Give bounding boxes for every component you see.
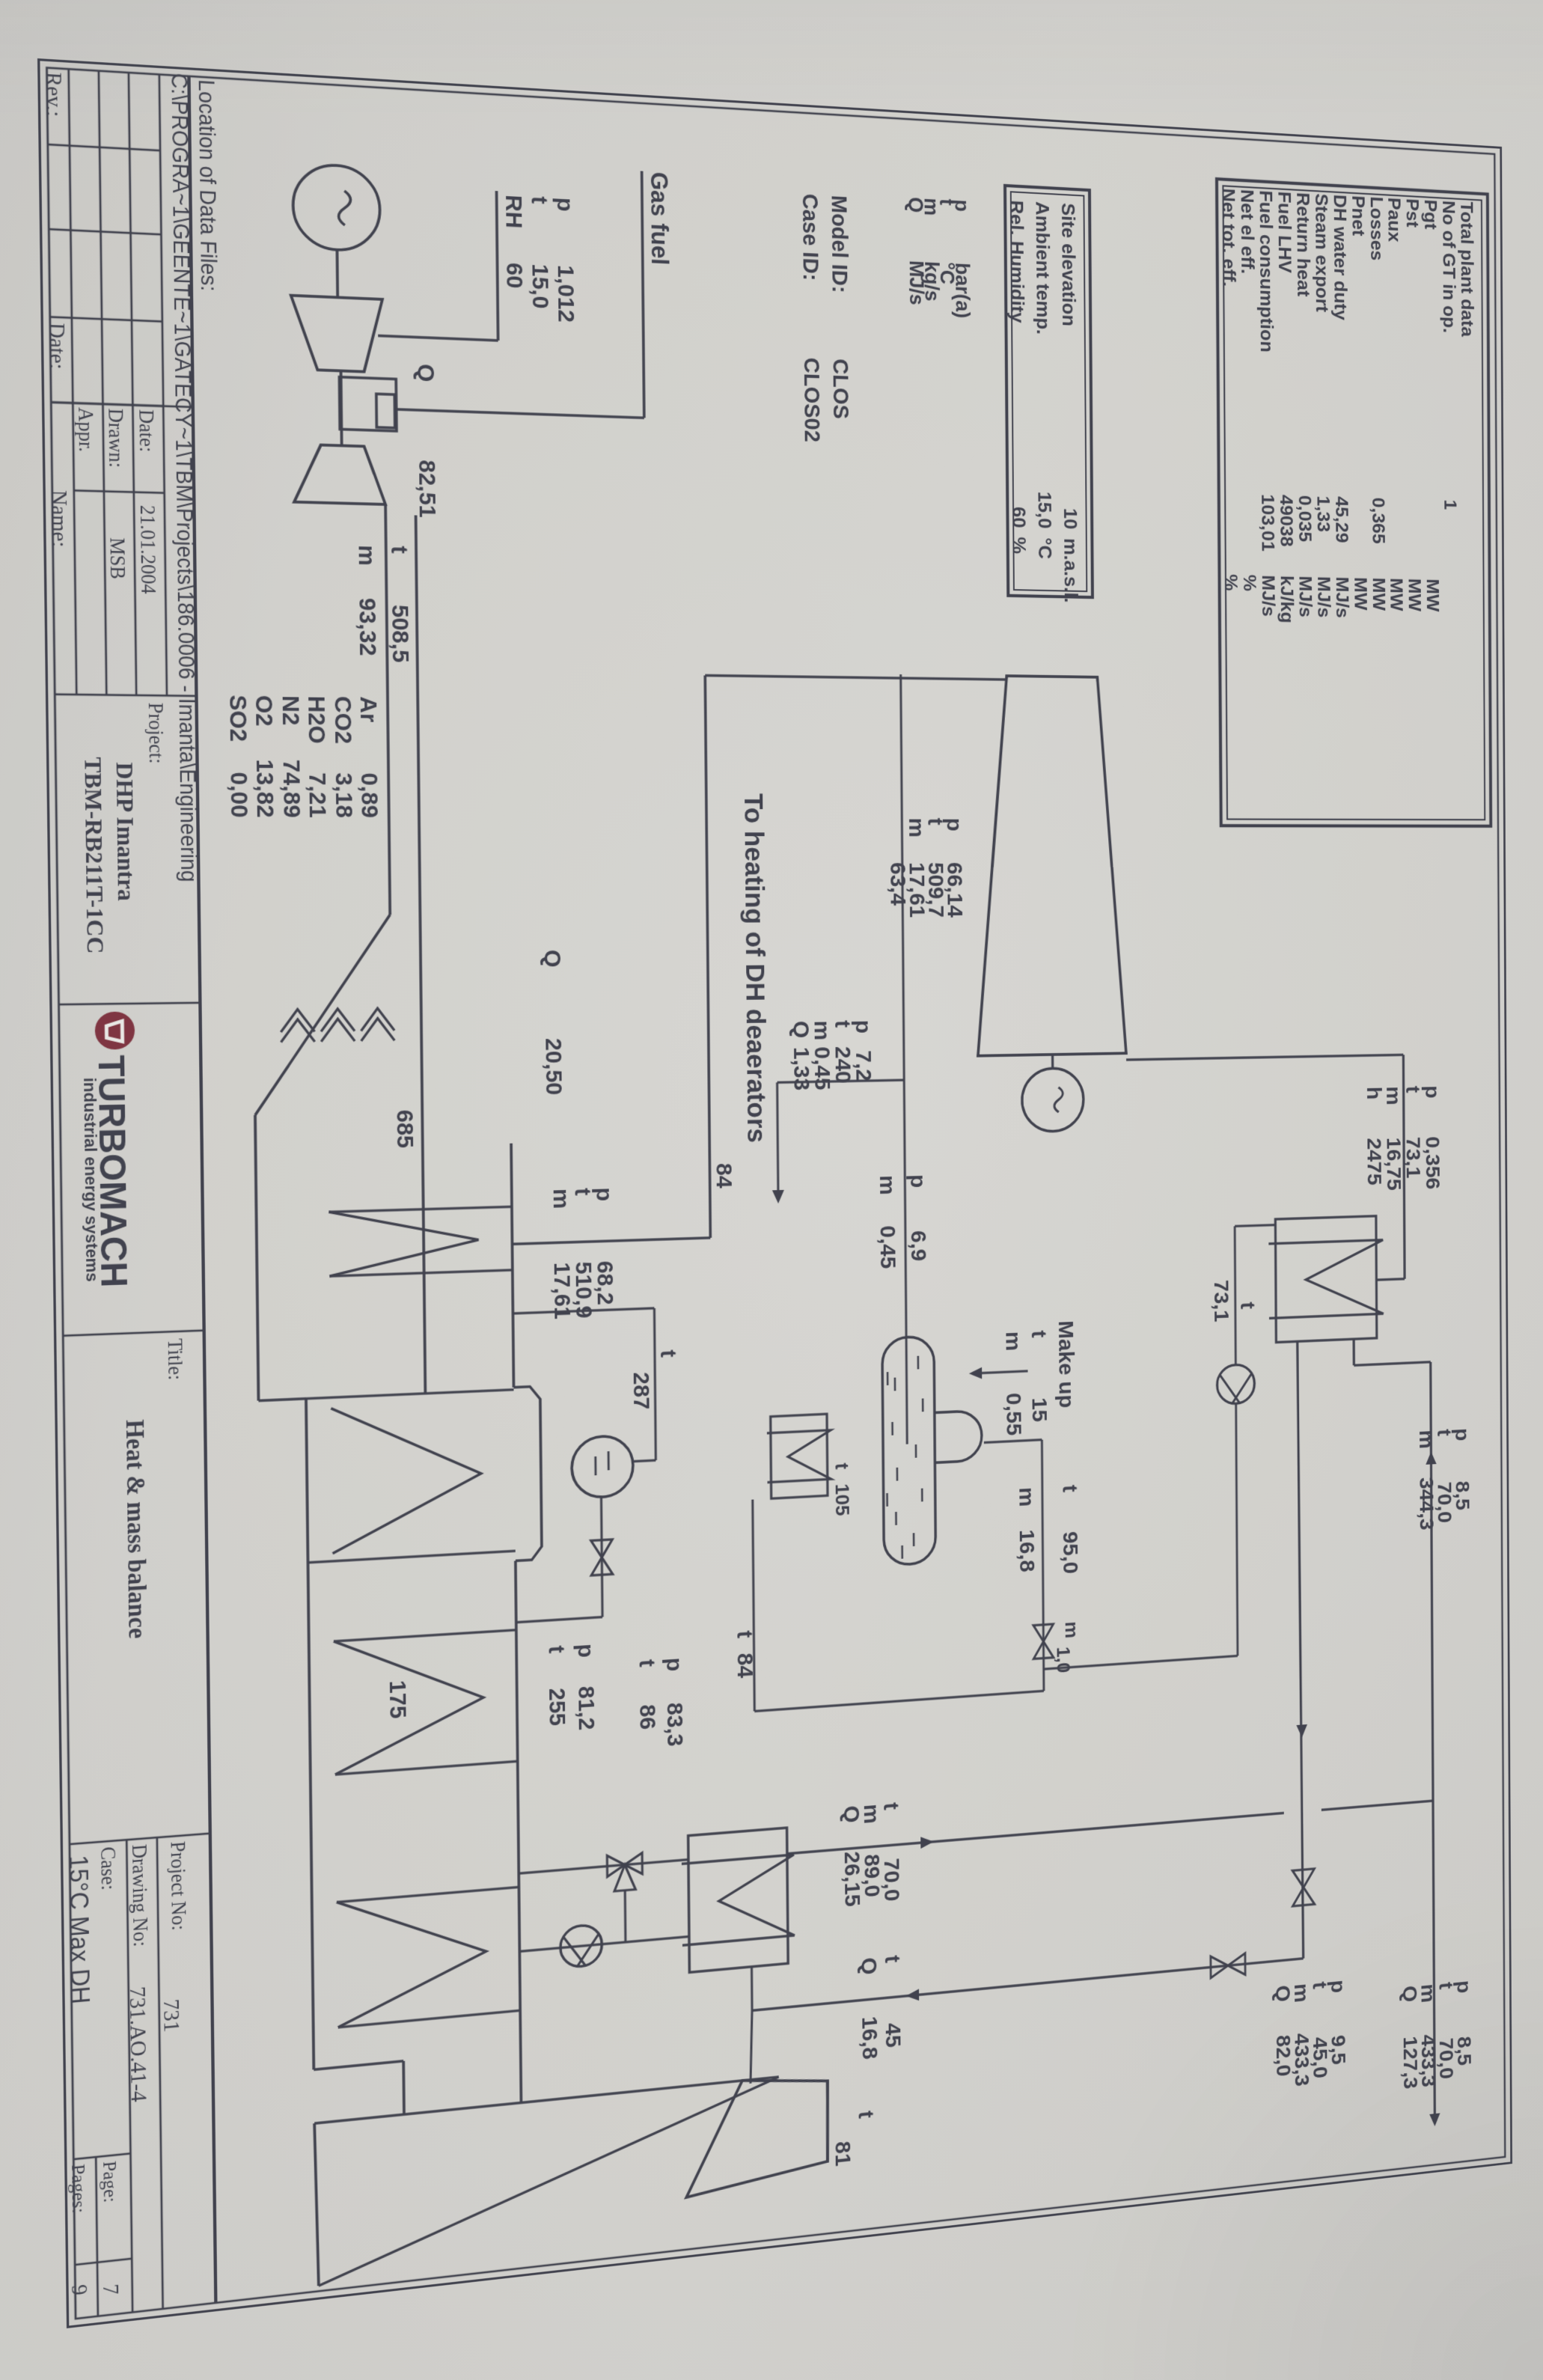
svg-text:13,82: 13,82 <box>251 759 278 817</box>
svg-text:2475: 2475 <box>1363 1138 1386 1186</box>
ST generator <box>1022 1068 1084 1132</box>
svg-text:63,4: 63,4 <box>885 862 911 906</box>
exhaust top run <box>1403 1055 1405 1278</box>
return header flow arrow <box>1426 1451 1436 1465</box>
GT generator <box>293 163 380 252</box>
svg-text:MJ/s: MJ/s <box>1258 575 1278 617</box>
GT compressor <box>291 296 383 373</box>
svg-text:93,32: 93,32 <box>354 597 382 656</box>
svg-text:26,15: 26,15 <box>840 1850 865 1908</box>
svg-text:Date:: Date: <box>44 323 70 370</box>
svg-text:%: % <box>1239 574 1259 591</box>
deaerator heating hx <box>771 1414 828 1498</box>
svg-text:m.a.s.l.: m.a.s.l. <box>1060 538 1081 603</box>
supply arrow <box>1296 1724 1307 1738</box>
svg-text:Q: Q <box>412 364 439 382</box>
svg-text:Q: Q <box>857 1956 882 1976</box>
fuel inlet box <box>376 394 395 427</box>
svg-text:Total plant data: Total plant data <box>1457 201 1477 338</box>
svg-text:1,33: 1,33 <box>789 1047 814 1091</box>
svg-text:0,45: 0,45 <box>876 1225 901 1269</box>
turbine exhaust riser <box>1126 1055 1403 1060</box>
svg-text:7: 7 <box>98 2283 123 2296</box>
svg-text:Rel. Humidity: Rel. Humidity <box>1006 200 1027 323</box>
supply valve <box>1292 1869 1314 1906</box>
svg-text:45,29: 45,29 <box>1332 496 1351 543</box>
svg-text:Gas fuel: Gas fuel <box>646 171 673 266</box>
total plant data table <box>1217 179 1491 826</box>
feed valve <box>1033 1624 1054 1659</box>
duct floor section 2 <box>306 1399 314 2070</box>
gas fuel line <box>642 171 644 418</box>
svg-text:p: p <box>551 197 578 213</box>
supply branch down <box>752 1959 1304 2011</box>
svg-text:Pgt: Pgt <box>1420 199 1440 231</box>
svg-text:t: t <box>526 195 552 204</box>
svg-text:t: t <box>656 1349 681 1358</box>
svg-text:t: t <box>543 1645 569 1655</box>
riser1 arrow <box>920 1836 934 1849</box>
GT turbine <box>293 444 385 504</box>
svg-text:t: t <box>386 546 413 554</box>
title block top line <box>189 76 216 2303</box>
svg-text:0,365: 0,365 <box>1369 497 1388 544</box>
svg-text:20,50: 20,50 <box>540 1038 567 1096</box>
svg-text:Site elevation: Site elevation <box>1057 202 1079 326</box>
svg-text:10: 10 <box>1060 508 1080 530</box>
svg-text:74,89: 74,89 <box>278 760 305 818</box>
svg-text:Project:: Project: <box>144 703 167 764</box>
condensate pump <box>1217 1364 1254 1405</box>
svg-text:kJ/kg: kJ/kg <box>1277 576 1297 624</box>
site data table <box>1005 186 1093 597</box>
drum penthouse <box>513 1386 542 1560</box>
svg-text:83,3: 83,3 <box>661 1702 688 1748</box>
svg-text:60: 60 <box>501 262 528 289</box>
svg-text:175: 175 <box>384 1679 411 1720</box>
svg-text:To heating of DH deaerators: To heating of DH deaerators <box>739 793 771 1143</box>
condensate down to feed line <box>1044 1656 1238 1669</box>
svg-text:1,33: 1,33 <box>1313 495 1333 532</box>
svg-text:MW: MW <box>1405 578 1424 611</box>
svg-text:m: m <box>1014 1486 1038 1507</box>
svg-text:Date:: Date: <box>134 409 157 453</box>
svg-text:Title:: Title: <box>163 1338 186 1381</box>
branch to DH deaerator heating <box>777 1080 905 1082</box>
svg-text:Q: Q <box>540 950 566 968</box>
svg-text:m: m <box>1382 1086 1405 1105</box>
evaporator coil <box>331 1402 482 1554</box>
exhaust duct bottom edge <box>385 504 390 915</box>
svg-text:N2: N2 <box>277 695 305 725</box>
feedwater line <box>1042 1440 1044 1691</box>
svg-text:Ar: Ar <box>355 696 382 722</box>
DH supply header <box>1298 1341 1304 1959</box>
right info block <box>70 1834 210 1844</box>
svg-text:Ambient temp.: Ambient temp. <box>1032 201 1054 335</box>
svg-text:RH: RH <box>501 195 528 229</box>
svg-text:15,0: 15,0 <box>527 263 554 309</box>
svg-text:m: m <box>1061 1621 1081 1639</box>
svg-text:15,0: 15,0 <box>1034 491 1055 528</box>
svg-text:6,9: 6,9 <box>906 1230 931 1262</box>
duct end wall <box>314 2077 779 2123</box>
svg-text:Drawing No:: Drawing No: <box>127 1843 151 1947</box>
make up arrow <box>969 1367 982 1379</box>
svg-text:p: p <box>572 1643 599 1659</box>
svg-text:Pst: Pst <box>1402 198 1422 229</box>
DH load <box>685 2072 828 2197</box>
duct floor step <box>258 1399 306 1401</box>
make up line <box>982 1371 1027 1373</box>
svg-text:Pages:: Pages: <box>67 2163 89 2214</box>
svg-text:9: 9 <box>67 2283 91 2297</box>
duct floor section 1 <box>255 1115 258 1401</box>
revision table grid <box>159 74 167 695</box>
superheater outlet riser <box>512 1238 710 1244</box>
stack cone bottom <box>314 2123 319 2286</box>
DH return header <box>1431 1362 1435 2117</box>
svg-text:t: t <box>634 1659 659 1668</box>
svg-text:81: 81 <box>830 2140 855 2167</box>
exhaust into condenser <box>1376 1279 1405 1280</box>
svg-text:SO2: SO2 <box>224 695 251 742</box>
section divider left <box>306 1390 514 1399</box>
svg-text:508,5: 508,5 <box>386 605 414 663</box>
svg-text:Project No:: Project No: <box>166 1840 190 1931</box>
svg-text:81,2: 81,2 <box>573 1685 599 1731</box>
svg-text:16,8: 16,8 <box>1015 1529 1039 1573</box>
DH condenser <box>1275 1216 1376 1343</box>
duct inlet ramp <box>253 915 392 1115</box>
svg-text:t: t <box>880 1954 905 1964</box>
svg-text:p: p <box>1421 1085 1443 1099</box>
deaerator dome <box>935 1411 982 1463</box>
duct end step <box>314 2061 403 2069</box>
svg-text:685: 685 <box>391 1109 418 1148</box>
arrow to deaerators <box>772 1190 784 1203</box>
GT shaft <box>336 250 339 298</box>
condensate drop <box>1235 1225 1275 1227</box>
svg-text:Rev.:: Rev.: <box>41 71 67 118</box>
svg-text:73,1: 73,1 <box>1402 1137 1425 1179</box>
drum valve <box>591 1540 613 1575</box>
svg-text:m: m <box>875 1175 899 1195</box>
svg-text:1: 1 <box>1440 499 1460 510</box>
riser2 link to hx <box>751 1967 754 2011</box>
svg-text:95,0: 95,0 <box>1058 1531 1082 1575</box>
svg-text:Model ID:: Model ID: <box>826 195 852 293</box>
svg-text:Losses: Losses <box>1366 196 1386 261</box>
feed drop <box>754 1691 1044 1711</box>
GT combustor <box>339 377 397 431</box>
svg-text:MJ/s: MJ/s <box>905 260 929 305</box>
svg-text:103,01: 103,01 <box>1257 494 1277 552</box>
svg-text:H2O: H2O <box>302 695 330 743</box>
main steam riser <box>705 675 1006 680</box>
into condenser <box>1352 1339 1355 1365</box>
svg-text:%: % <box>1220 574 1241 591</box>
DH circuit pump <box>560 1924 602 1968</box>
svg-text:82,51: 82,51 <box>413 460 441 519</box>
svg-text:MJ/s: MJ/s <box>1314 576 1333 618</box>
svg-text:Heat & mass balance: Heat & mass balance <box>120 1419 152 1640</box>
page table <box>73 2153 130 2159</box>
svg-text:0,00: 0,00 <box>225 772 253 818</box>
riser2 arrow <box>906 1989 920 2001</box>
condensate line <box>1235 1226 1235 1364</box>
stack cone top <box>317 2077 780 2286</box>
svg-text:73,1: 73,1 <box>1209 1280 1233 1322</box>
svg-text:p: p <box>905 1174 930 1189</box>
riser1 lower <box>787 1813 1284 1853</box>
drum outlet <box>601 1496 602 1617</box>
svg-text:p: p <box>661 1657 687 1673</box>
svg-text:255: 255 <box>544 1687 570 1727</box>
svg-text:Net el eff.: Net el eff. <box>1237 189 1257 275</box>
svg-text:CLOS02: CLOS02 <box>799 357 825 442</box>
svg-text:287: 287 <box>628 1372 654 1411</box>
svg-text:127,3: 127,3 <box>1399 2035 1422 2090</box>
svg-text:industrial energy systems: industrial energy systems <box>79 1078 102 1282</box>
svg-text:Location of Data Files:: Location of Data Files: <box>194 79 221 292</box>
svg-text:MW: MW <box>1351 577 1370 611</box>
GT shaft mid <box>341 370 342 445</box>
svg-text:MW: MW <box>1387 578 1406 611</box>
deaerator vessel <box>882 1336 936 1566</box>
svg-text:Q: Q <box>905 197 927 214</box>
svg-text:MSB: MSB <box>106 537 129 580</box>
3-way valve <box>607 1853 642 1877</box>
pump line <box>519 1936 689 1951</box>
svg-text:Case:: Case: <box>96 1846 119 1891</box>
svg-text:16,8: 16,8 <box>857 2016 882 2061</box>
duct inlet chevrons <box>361 1008 394 1041</box>
svg-text:731: 731 <box>159 1998 184 2033</box>
svg-text:Fuel consumption: Fuel consumption <box>1256 190 1277 353</box>
svg-text:60: 60 <box>1008 507 1029 528</box>
svg-text:h: h <box>1363 1087 1386 1100</box>
svg-text:Q: Q <box>1271 1984 1295 2003</box>
svg-text:0,89: 0,89 <box>355 773 383 819</box>
steam turbine <box>975 675 1126 1055</box>
svg-text:45: 45 <box>881 2022 905 2048</box>
svg-text:731.AO.41-4: 731.AO.41-4 <box>125 1986 152 2103</box>
section divider right <box>308 1551 516 1563</box>
svg-text:15: 15 <box>1027 1397 1051 1423</box>
main steam line <box>705 675 710 1237</box>
svg-text:Steam export: Steam export <box>1311 193 1331 313</box>
svg-text:84: 84 <box>711 1163 736 1189</box>
svg-text:t: t <box>1236 1302 1259 1310</box>
svg-text:m: m <box>1001 1331 1026 1351</box>
svg-text:Q: Q <box>1399 1985 1421 2004</box>
svg-text:TBM-RB211T-1CC: TBM-RB211T-1CC <box>79 757 109 953</box>
downcomer <box>516 1617 602 1623</box>
branch valve <box>1211 1953 1245 1978</box>
air inlet line <box>497 191 498 341</box>
svg-text:°C: °C <box>1034 537 1055 559</box>
superheater coil 685 <box>329 1206 512 1212</box>
svg-text:Case ID:: Case ID: <box>798 193 823 281</box>
svg-text:1,012: 1,012 <box>552 264 579 323</box>
svg-text:%: % <box>1008 537 1029 554</box>
ST shaft <box>1051 1055 1054 1069</box>
svg-text:DH water duty: DH water duty <box>1330 194 1350 320</box>
svg-text:3,18: 3,18 <box>330 772 358 818</box>
svg-text:82,0: 82,0 <box>1271 2033 1295 2078</box>
TURBOMACH logo mark <box>95 1011 135 1049</box>
svg-text:1,0: 1,0 <box>1053 1646 1073 1673</box>
svg-text:0,035: 0,035 <box>1295 495 1315 542</box>
svg-text:No of GT in op.: No of GT in op. <box>1439 200 1459 334</box>
DH economizer coil 175 <box>334 1630 516 1641</box>
svg-text:Paux: Paux <box>1384 197 1404 242</box>
svg-text:344,3: 344,3 <box>1415 1477 1438 1531</box>
svg-text:MJ/s: MJ/s <box>1332 576 1351 618</box>
svg-text:CO2: CO2 <box>329 696 357 744</box>
logo cell <box>59 1003 201 1004</box>
svg-text:84: 84 <box>732 1653 757 1679</box>
economizer coil <box>337 1887 519 1902</box>
svg-text:15°C Max DH: 15°C Max DH <box>64 1855 94 2006</box>
svg-text:Q: Q <box>789 1021 814 1039</box>
svg-text:Page:: Page: <box>98 2160 120 2204</box>
riser1 to header upper <box>1322 1801 1433 1810</box>
svg-text:t: t <box>1027 1330 1051 1338</box>
duct roof <box>511 1144 513 1388</box>
svg-text:MJ/s: MJ/s <box>1295 576 1316 617</box>
svg-text:Fuel LHV: Fuel LHV <box>1274 191 1295 273</box>
extraction steam to deaerator <box>901 674 908 1444</box>
svg-text:Q: Q <box>839 1804 864 1824</box>
svg-text:Net tot. eff.: Net tot. eff. <box>1218 188 1238 287</box>
svg-text:Appr.: Appr. <box>73 407 97 453</box>
svg-text:0,356: 0,356 <box>1421 1136 1444 1190</box>
svg-text:Name:: Name: <box>46 489 72 547</box>
water level dashes <box>917 1356 920 1370</box>
svg-text:m: m <box>904 818 929 837</box>
svg-text:86: 86 <box>635 1703 661 1730</box>
exhaust duct top edge <box>416 515 426 1393</box>
svg-text:MW: MW <box>1423 579 1442 611</box>
svg-text:DHP Imantra: DHP Imantra <box>111 762 140 901</box>
header arrow <box>1429 2113 1440 2126</box>
svg-text:m: m <box>1415 1429 1437 1450</box>
feed from dome <box>984 1440 1042 1443</box>
svg-text:Make up: Make up <box>1054 1320 1078 1409</box>
gas fuel drop <box>395 409 644 418</box>
svg-text:t: t <box>1402 1086 1424 1093</box>
steam drum <box>572 1435 634 1498</box>
svg-text:t: t <box>854 2110 879 2120</box>
svg-text:CLOS: CLOS <box>828 358 852 420</box>
DH heat exchanger <box>688 1828 789 1972</box>
svg-text:Pnet: Pnet <box>1348 195 1368 237</box>
svg-text:Return heat: Return heat <box>1293 192 1313 297</box>
svg-text:105: 105 <box>831 1483 853 1516</box>
svg-text:t: t <box>831 1462 852 1471</box>
3-way valve line <box>519 1860 688 1874</box>
air inlet drop <box>378 336 498 341</box>
svg-text:m: m <box>548 1189 574 1209</box>
svg-text:49038: 49038 <box>1276 495 1296 547</box>
svg-text:21.01.2004: 21.01.2004 <box>135 505 159 594</box>
svg-text:Drawn:: Drawn: <box>103 408 127 468</box>
svg-text:O2: O2 <box>250 695 278 727</box>
svg-text:t: t <box>1058 1484 1082 1493</box>
svg-text:m: m <box>353 545 380 567</box>
svg-text:7,21: 7,21 <box>304 772 331 818</box>
svg-text:0,55: 0,55 <box>1001 1392 1026 1436</box>
svg-text:MW: MW <box>1369 577 1388 611</box>
line to deaerator heater <box>753 1500 755 1712</box>
economizer outlet riser <box>513 1308 654 1313</box>
